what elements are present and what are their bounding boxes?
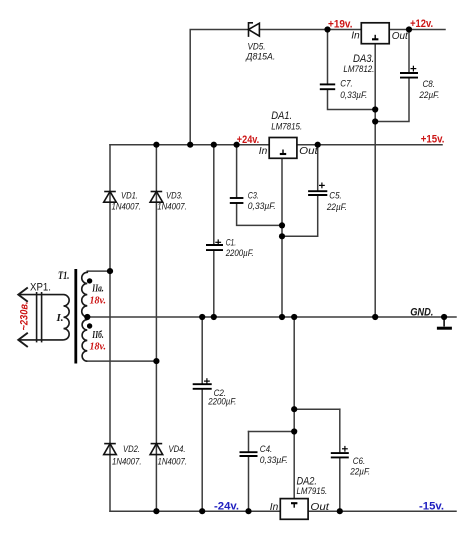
wire -15v bottom rail from DA2 Out <box>308 510 456 512</box>
svg-text:C1.: C1. <box>226 238 237 249</box>
svg-text:1N4007.: 1N4007. <box>157 202 187 213</box>
junction +12v node <box>406 26 412 32</box>
junction C1 on GND rail <box>211 314 217 320</box>
wire top rail DA3 Out to +12v end <box>389 29 445 31</box>
junction DA3 gnd on GND rail <box>372 314 378 320</box>
svg-text:DA3.: DA3. <box>353 53 374 65</box>
svg-text:LM7815.: LM7815. <box>271 121 302 132</box>
polarity dot winding IIb <box>87 323 92 328</box>
wire C2 column upper <box>201 317 203 384</box>
wire DA3 ground lead <box>374 44 376 317</box>
transformer secondary winding IIb <box>82 320 87 362</box>
wire C3 branch lower to DA1 gnd <box>237 203 282 225</box>
wire C4 column lower <box>248 456 250 511</box>
wire C5 branch upper <box>317 145 319 192</box>
svg-text:I.: I. <box>56 312 64 324</box>
capacitor C3 <box>230 198 244 203</box>
svg-text:C4.: C4. <box>260 444 273 455</box>
svg-text:0,33µF.: 0,33µF. <box>340 90 367 101</box>
junction C3 +24v node <box>234 142 240 148</box>
connector XP1 <box>18 288 63 348</box>
ground symbol inside DA3 <box>372 35 378 40</box>
capacitor C6 <box>331 453 349 457</box>
wire +15v rail <box>297 144 442 146</box>
wire +24v rail <box>110 144 269 146</box>
wire C3 branch upper <box>236 145 238 198</box>
junction C3 to DA1 gnd <box>279 222 285 228</box>
svg-text:+19v.: +19v. <box>328 19 353 31</box>
capacitor C8 <box>400 73 418 78</box>
junction C6 branch on DA2 gnd column <box>291 406 297 412</box>
wire C6 column upper <box>339 409 341 453</box>
polarity dot winding IIa <box>87 278 92 283</box>
junction winding center tap <box>84 314 90 320</box>
svg-text:+24v.: +24v. <box>237 134 259 146</box>
wire C1 column lower <box>213 250 215 317</box>
svg-text:22µF.: 22µF. <box>326 202 347 213</box>
diode VD2 <box>104 444 117 455</box>
svg-text:-24v.: -24v. <box>214 501 239 513</box>
svg-text:Д815А.: Д815А. <box>245 52 275 63</box>
junction GND terminal <box>441 314 447 320</box>
svg-text:VD1.: VD1. <box>121 191 138 202</box>
svg-text:~230в.: ~230в. <box>19 302 31 331</box>
svg-text:-15v.: -15v. <box>419 501 444 513</box>
junction VD4 on -24v rail <box>153 508 159 514</box>
capacitor C4 <box>240 452 258 456</box>
junction C4 on -24v rail <box>245 508 251 514</box>
junction C7 to DA3 gnd <box>372 106 378 112</box>
junction VD5 riser on +24v rail <box>187 142 193 148</box>
regulator DA1 body <box>269 138 297 159</box>
wire C7 branch upper <box>327 30 329 85</box>
wire top rail from VD5 anode to DA3 In <box>259 29 361 31</box>
svg-text:C7.: C7. <box>340 79 353 90</box>
transformer secondary winding IIa <box>82 271 88 317</box>
svg-text:C5.: C5. <box>329 191 342 202</box>
wire C1 column upper <box>213 145 215 245</box>
capacitor C1 <box>206 245 223 250</box>
junction IIb bottom lead <box>153 358 159 364</box>
svg-text:Out: Out <box>299 146 319 157</box>
svg-text:Out: Out <box>392 31 409 42</box>
svg-text:2200µF.: 2200µF. <box>225 248 254 259</box>
svg-text:1N4007.: 1N4007. <box>112 456 142 467</box>
wire DA2 ground column <box>293 317 295 499</box>
junction C5 on +15v rail <box>315 142 321 148</box>
svg-text:0,33µF.: 0,33µF. <box>260 455 288 466</box>
diode VD1 <box>104 192 117 203</box>
junction C6 on -15v rail <box>337 508 343 514</box>
svg-text:18v.: 18v. <box>90 341 107 353</box>
svg-text:In: In <box>270 502 279 513</box>
junction C2 on GND rail <box>199 314 205 320</box>
junction DA2 gnd on GND rail <box>291 314 297 320</box>
wire C7 branch lower to DA3 gnd <box>328 89 376 109</box>
svg-text:XP1.: XP1. <box>30 282 51 294</box>
junction C5 to DA1 gnd <box>279 233 285 239</box>
wire -24v bottom rail to DA2 In <box>110 510 280 512</box>
wire secondary IIb bottom lead <box>87 360 156 362</box>
wire GND rail <box>87 316 456 318</box>
capacitor C5 <box>308 191 327 195</box>
svg-text:22µF.: 22µF. <box>419 90 440 101</box>
svg-text:IIб.: IIб. <box>92 330 104 341</box>
junction VD3 top on +24v rail <box>153 142 159 148</box>
svg-text:C8.: C8. <box>423 79 436 90</box>
wire C2 column lower <box>201 389 203 511</box>
svg-text:1N4007.: 1N4007. <box>158 456 188 467</box>
diode VD3 <box>150 192 163 203</box>
wire secondary IIa top lead <box>87 270 110 272</box>
wire top rail left riser from +24v rail to VD5 <box>190 30 248 145</box>
wire C4 column upper <box>248 432 250 453</box>
junction C2 on -24v rail <box>199 508 205 514</box>
svg-text:IIа.: IIа. <box>92 284 104 295</box>
svg-text:22µF.: 22µF. <box>349 466 370 477</box>
wire C8 branch lower to DA3 gnd <box>375 78 409 122</box>
svg-text:In: In <box>259 146 268 157</box>
junction C4 branch on DA2 gnd column <box>291 428 297 434</box>
junction +19v node <box>324 26 330 32</box>
wire C6 column lower <box>339 457 341 511</box>
transformer T1 primary winding I <box>64 295 70 340</box>
diode VD4 <box>150 444 163 455</box>
regulator DA3 body <box>361 23 389 44</box>
junction DA1 gnd on GND rail <box>279 314 285 320</box>
svg-text:LM7812.: LM7812. <box>343 64 374 75</box>
svg-text:T1.: T1. <box>58 270 69 282</box>
ground symbol inside DA2 inverted <box>291 503 297 508</box>
ground symbol inside DA1 <box>280 150 286 155</box>
svg-text:2200µF.: 2200µF. <box>207 396 236 407</box>
wire column VD3 VD4 <box>155 145 157 512</box>
junction IIa top lead <box>107 268 113 274</box>
svg-text:VD2.: VD2. <box>123 444 140 455</box>
svg-text:VD3.: VD3. <box>166 191 183 202</box>
wire C8 branch upper <box>408 30 410 74</box>
transformer T1 core <box>74 269 77 364</box>
svg-text:+15v.: +15v. <box>421 134 445 146</box>
ground symbol GND terminal <box>437 317 452 328</box>
svg-text:GND.: GND. <box>410 307 433 319</box>
svg-text:In: In <box>351 31 360 42</box>
svg-text:Out: Out <box>310 502 330 513</box>
svg-text:1N4007.: 1N4007. <box>112 202 142 213</box>
capacitor C7 <box>320 84 335 89</box>
regulator DA2 body <box>280 499 308 520</box>
svg-text:18v.: 18v. <box>90 295 107 307</box>
wire C6 branch top to DA2 gnd <box>294 408 340 410</box>
junction C1 top on +24v rail <box>211 142 217 148</box>
wire C4 branch top to DA2 gnd <box>249 431 295 433</box>
capacitor C2 <box>193 384 212 389</box>
wire C5 branch lower to DA1 gnd <box>282 195 318 236</box>
svg-text:LM7915.: LM7915. <box>297 486 328 497</box>
svg-text:VD4.: VD4. <box>169 444 186 455</box>
svg-text:0,33µF.: 0,33µF. <box>248 201 276 212</box>
svg-text:+12v.: +12v. <box>410 18 433 30</box>
junction C8 to DA3 gnd <box>372 118 378 124</box>
wire left column VD1 VD2 <box>109 145 111 512</box>
zener diode VD5 <box>249 23 260 37</box>
wire DA1 ground lead <box>281 158 283 317</box>
